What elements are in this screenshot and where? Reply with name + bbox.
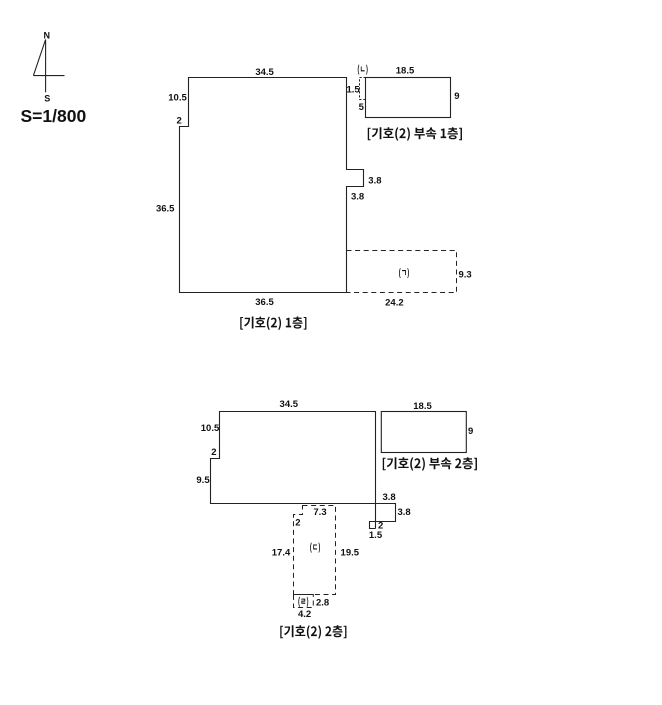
svg-text:S=1/800: S=1/800 bbox=[21, 106, 87, 126]
svg-text:9: 9 bbox=[468, 426, 473, 437]
svg-text:19.5: 19.5 bbox=[341, 548, 360, 559]
2F right edge lower extension bbox=[375, 504, 377, 529]
svg-text:18.5: 18.5 bbox=[413, 401, 432, 412]
svg-text:9: 9 bbox=[454, 91, 459, 102]
svg-text:3.8: 3.8 bbox=[351, 191, 364, 202]
north arrow diagonal bbox=[33, 40, 45, 76]
area label (g) 1F bbox=[399, 268, 409, 278]
svg-text:3.8: 3.8 bbox=[383, 492, 396, 503]
annex 1F rectangle bbox=[366, 78, 451, 118]
svg-text:10.5: 10.5 bbox=[168, 92, 187, 103]
dashed area (d) 2F bbox=[294, 506, 336, 595]
svg-text:18.5: 18.5 bbox=[396, 66, 415, 77]
svg-text:S: S bbox=[44, 94, 50, 104]
svg-text:1.5: 1.5 bbox=[369, 530, 383, 541]
2F small square 1.5x2 bbox=[370, 522, 376, 529]
title [giho(2) 1F] bbox=[240, 317, 306, 331]
svg-text:2: 2 bbox=[177, 116, 182, 127]
building 2F outline bbox=[211, 412, 376, 504]
area label (n) annex 1F bbox=[358, 65, 368, 75]
svg-text:9.5: 9.5 bbox=[196, 475, 210, 486]
svg-text:3.8: 3.8 bbox=[398, 507, 411, 518]
north arrow horizontal bar bbox=[33, 75, 64, 77]
svg-text:2: 2 bbox=[211, 447, 216, 458]
svg-text:2: 2 bbox=[295, 518, 300, 529]
svg-text:36.5: 36.5 bbox=[255, 297, 274, 308]
svg-text:24.2: 24.2 bbox=[385, 297, 404, 308]
area label (d) 2F bbox=[310, 543, 320, 553]
title [giho(2) 2F] bbox=[280, 625, 346, 639]
dashed area (r) 2F bbox=[294, 595, 314, 608]
svg-text:1.5: 1.5 bbox=[347, 84, 361, 95]
svg-text:5: 5 bbox=[359, 102, 365, 113]
svg-text:3.8: 3.8 bbox=[368, 176, 381, 187]
north arrow needle vertical bbox=[45, 40, 47, 93]
title [giho(2) annex 1F] bbox=[368, 127, 462, 141]
svg-text:17.4: 17.4 bbox=[272, 548, 291, 559]
dashed area (g1) 1F bbox=[347, 251, 457, 293]
title [giho(2) annex 2F] bbox=[383, 457, 477, 471]
svg-text:9.3: 9.3 bbox=[459, 270, 472, 281]
svg-text:4.2: 4.2 bbox=[298, 609, 311, 620]
area label (r) 2F bbox=[298, 597, 308, 607]
svg-text:10.5: 10.5 bbox=[201, 423, 220, 434]
annex 2F rectangle bbox=[381, 412, 466, 453]
building 1F outline bbox=[180, 78, 364, 293]
svg-text:N: N bbox=[43, 30, 50, 40]
svg-text:34.5: 34.5 bbox=[280, 399, 299, 410]
svg-text:36.5: 36.5 bbox=[156, 203, 175, 214]
svg-text:7.3: 7.3 bbox=[313, 507, 326, 518]
2F small box 3.8 bbox=[376, 504, 396, 522]
svg-text:34.5: 34.5 bbox=[255, 67, 274, 78]
svg-text:2.8: 2.8 bbox=[316, 598, 329, 609]
dashed box (n) annex 1F bbox=[360, 78, 366, 100]
